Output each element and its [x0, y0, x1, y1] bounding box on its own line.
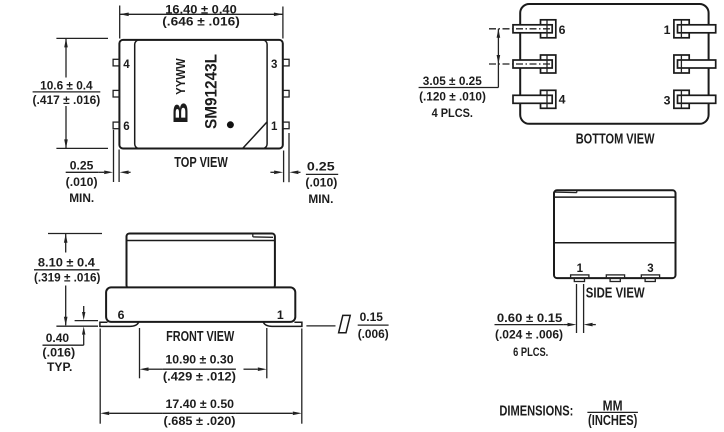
svg-text:10.6 ± 0.4: 10.6 ± 0.4	[40, 78, 93, 92]
svg-text:4: 4	[559, 93, 566, 107]
svg-text:0.25: 0.25	[70, 159, 94, 173]
svg-text:3.05 ± 0.25: 3.05 ± 0.25	[423, 74, 482, 88]
svg-text:(.006): (.006)	[358, 327, 389, 341]
svg-text:10.90 ± 0.30: 10.90 ± 0.30	[165, 353, 233, 367]
svg-text:6: 6	[118, 308, 125, 322]
svg-text:0.25: 0.25	[307, 160, 335, 174]
svg-text:B: B	[171, 102, 193, 124]
svg-text:(.120 ± .010): (.120 ± .010)	[419, 90, 486, 104]
svg-text:FRONT VIEW: FRONT VIEW	[166, 329, 234, 345]
svg-text:SIDE VIEW: SIDE VIEW	[586, 286, 645, 302]
svg-text:1: 1	[664, 23, 671, 37]
svg-text:1: 1	[277, 308, 284, 322]
svg-text:17.40 ± 0.50: 17.40 ± 0.50	[166, 397, 235, 411]
svg-text:3: 3	[664, 93, 671, 107]
svg-text:1: 1	[271, 121, 278, 133]
svg-text:4 PLCS.: 4 PLCS.	[432, 106, 473, 120]
svg-text:(INCHES): (INCHES)	[588, 413, 637, 429]
svg-text:SM91243L: SM91243L	[202, 54, 220, 129]
svg-text:1: 1	[577, 263, 584, 275]
svg-text:(.010): (.010)	[305, 176, 337, 190]
svg-text:(.685 ± .020): (.685 ± .020)	[164, 414, 236, 428]
svg-text:6 PLCS.: 6 PLCS.	[513, 345, 548, 359]
svg-text:8.10 ± 0.4: 8.10 ± 0.4	[38, 256, 95, 270]
svg-text:(.429 ± .012): (.429 ± .012)	[163, 370, 236, 384]
svg-text:0.60 ± 0.15: 0.60 ± 0.15	[497, 311, 563, 325]
svg-text:(.646 ± .016): (.646 ± .016)	[162, 15, 240, 29]
svg-text:6: 6	[559, 23, 566, 37]
svg-text:6: 6	[123, 121, 129, 133]
svg-text:MIN.: MIN.	[69, 191, 94, 205]
svg-text:3: 3	[271, 59, 277, 71]
svg-text:(.010): (.010)	[66, 175, 98, 189]
svg-text:YYWW: YYWW	[174, 58, 188, 95]
svg-text:(.016): (.016)	[42, 345, 75, 359]
svg-text:TOP VIEW: TOP VIEW	[174, 155, 228, 171]
svg-text:DIMENSIONS:: DIMENSIONS:	[499, 404, 573, 420]
svg-text:BOTTOM VIEW: BOTTOM VIEW	[576, 132, 655, 148]
svg-text:0.15: 0.15	[360, 310, 383, 324]
svg-text:(.024 ± .006): (.024 ± .006)	[495, 328, 563, 342]
svg-text:(.417 ± .016): (.417 ± .016)	[33, 93, 101, 107]
svg-text:4: 4	[123, 59, 130, 71]
svg-text:3: 3	[647, 263, 653, 275]
svg-text:MIN.: MIN.	[308, 192, 333, 206]
svg-text:TYP.: TYP.	[47, 360, 72, 374]
svg-text:(.319 ± .016): (.319 ± .016)	[34, 271, 101, 285]
svg-text:0.40: 0.40	[46, 331, 70, 345]
